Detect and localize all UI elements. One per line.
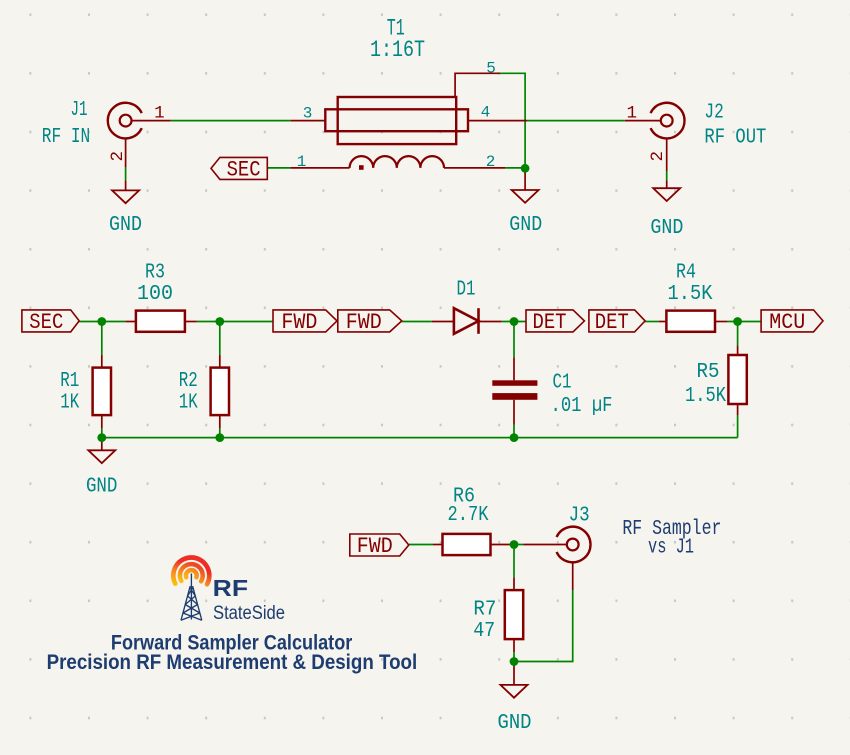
svg-text:DET: DET	[595, 310, 629, 335]
svg-text:1K: 1K	[179, 391, 198, 415]
svg-text:MCU: MCU	[769, 310, 805, 335]
svg-text:R1: R1	[60, 369, 79, 393]
svg-text:GND: GND	[650, 216, 683, 240]
svg-text:GND: GND	[86, 475, 118, 499]
svg-text:.01 µF: .01 µF	[551, 394, 613, 418]
svg-text:vs J1: vs J1	[648, 536, 694, 560]
svg-text:2: 2	[486, 153, 496, 171]
svg-text:2: 2	[648, 151, 668, 162]
svg-text:FWD: FWD	[346, 310, 382, 335]
svg-text:GND: GND	[509, 213, 542, 237]
svg-text:1.5K: 1.5K	[685, 384, 726, 408]
svg-text:R3: R3	[145, 261, 165, 285]
svg-text:R7: R7	[473, 598, 496, 622]
svg-text:2: 2	[108, 151, 128, 162]
svg-text:5: 5	[486, 59, 496, 77]
svg-text:1.5K: 1.5K	[668, 282, 713, 306]
svg-text:R4: R4	[676, 261, 696, 285]
svg-text:RF IN: RF IN	[42, 125, 91, 149]
svg-text:RF: RF	[213, 575, 248, 601]
svg-text:4: 4	[481, 103, 491, 121]
svg-text:R5: R5	[697, 360, 720, 384]
svg-text:RF OUT: RF OUT	[704, 125, 766, 149]
svg-text:J3: J3	[569, 504, 590, 528]
svg-text:GND: GND	[498, 711, 532, 735]
svg-text:J2: J2	[704, 100, 723, 124]
svg-text:DET: DET	[533, 310, 567, 335]
svg-text:SEC: SEC	[227, 157, 261, 182]
svg-text:1: 1	[297, 153, 307, 171]
svg-text:J1: J1	[71, 98, 88, 122]
svg-text:R2: R2	[179, 369, 198, 393]
svg-text:2.7K: 2.7K	[448, 503, 489, 527]
svg-text:C1: C1	[553, 371, 572, 395]
svg-text:100: 100	[137, 282, 173, 306]
svg-text:47: 47	[473, 619, 495, 643]
svg-text:FWD: FWD	[281, 310, 317, 335]
svg-text:FWD: FWD	[357, 534, 393, 559]
svg-text:StateSide: StateSide	[213, 603, 285, 624]
svg-text:1: 1	[154, 104, 165, 124]
svg-text:1:16T: 1:16T	[370, 37, 425, 63]
svg-text:D1: D1	[457, 278, 476, 302]
svg-text:1K: 1K	[60, 391, 79, 415]
svg-text:SEC: SEC	[29, 310, 63, 335]
svg-text:GND: GND	[109, 213, 142, 237]
svg-text:3: 3	[303, 105, 313, 123]
svg-text:1: 1	[627, 103, 638, 123]
svg-text:Precision RF Measurement & Des: Precision RF Measurement & Design Tool	[47, 651, 418, 674]
